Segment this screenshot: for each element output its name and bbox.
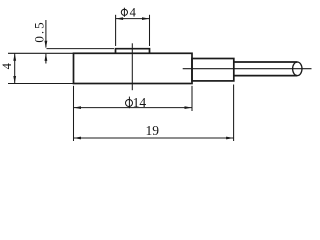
φ symbol of φ4 label — [121, 9, 127, 15]
0.5 upper extension line (boss top level) — [47, 48, 115, 50]
vertical centerline of boss — [131, 43, 133, 90]
φ14 dimension line — [74, 107, 193, 109]
0.5 dimension leader above — [45, 20, 47, 48]
svg-text:0.5: 0.5 — [32, 20, 47, 42]
19 left arrow — [74, 137, 82, 140]
φ14 left arrow — [74, 106, 82, 109]
boss (φ4 stub on top of body) — [116, 49, 150, 54]
cable rod end ellipse — [293, 62, 302, 76]
φ14 right extension line — [191, 86, 193, 111]
svg-text:19: 19 — [146, 123, 160, 138]
0.5 up arrow — [45, 53, 48, 61]
svg-text:14: 14 — [133, 95, 147, 110]
19 right extension line — [233, 85, 235, 142]
φ symbol of φ14 label — [126, 100, 133, 107]
φ4 right extension line — [149, 15, 151, 46]
4 dimension line — [14, 53, 16, 83]
4 bottom extension line — [8, 83, 74, 85]
probe body (φ14 cylinder, side view rectangle) — [74, 53, 193, 83]
svg-text:4: 4 — [0, 62, 14, 69]
cable rod top edge — [234, 61, 297, 63]
svg-text:4: 4 — [130, 6, 137, 20]
19 dimension line — [74, 137, 234, 139]
horizontal centerline — [183, 68, 312, 70]
0.5 down arrow — [45, 41, 48, 49]
φ4 left arrow — [116, 17, 124, 20]
φ4 left extension line — [115, 15, 117, 46]
4 top extension line — [8, 52, 74, 54]
φ14 left / 19 left shared extension line — [73, 86, 75, 141]
4 up arrow — [13, 53, 16, 61]
0.5 dimension leader below — [45, 54, 47, 64]
4 down arrow — [13, 76, 16, 84]
φ4 right arrow — [142, 17, 150, 20]
cable rod bottom edge — [234, 75, 297, 77]
19 right arrow — [226, 137, 234, 140]
stem (middle cylinder section) — [192, 59, 234, 81]
φ4 dimension line — [116, 18, 150, 20]
φ14 right arrow — [185, 106, 193, 109]
